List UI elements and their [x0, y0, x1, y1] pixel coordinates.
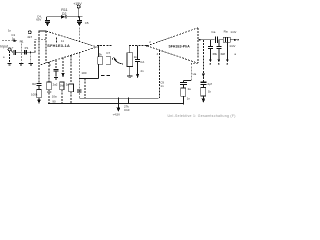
svg-text:Uni-Selektive 1: Gesamtschaltu: Uni-Selektive 1: Gesamtschaltung (F) — [168, 114, 236, 118]
wire node to P1 — [21, 51, 35, 53]
wire to inverting input — [35, 40, 46, 53]
wire IC2 output — [198, 39, 215, 41]
wire supply stub — [78, 8, 80, 17]
node IC2 input apex — [146, 40, 151, 47]
svg-text:10a: 10a — [52, 95, 57, 99]
capacitor C11 chain — [160, 80, 191, 103]
capacitor C8 — [135, 46, 144, 74]
svg-text:SFH1E3-1A: SFH1E3-1A — [47, 44, 70, 48]
svg-text:1mV: 1mV — [230, 30, 236, 34]
svg-text:Input: Input — [0, 45, 8, 49]
supply terminal +15V — [73, 2, 82, 8]
ground jack — [8, 51, 12, 65]
ground arrow C8 — [136, 74, 139, 79]
ground C2 — [54, 77, 58, 79]
wire rail link — [124, 98, 130, 112]
resistor R2 vertical — [30, 52, 32, 62]
svg-text:1µ: 1µ — [12, 36, 16, 40]
svg-text:Ua: Ua — [193, 72, 197, 76]
node rail dots — [48, 98, 129, 105]
wire to IC2 input — [129, 45, 147, 47]
wire down to rail — [84, 79, 86, 99]
ground arrow pin4 — [62, 58, 65, 78]
op-amp IC1 — [41, 31, 98, 65]
wire supply drop to IC1 — [78, 28, 80, 42]
svg-text:2a2: 2a2 — [53, 82, 58, 86]
capacitor C5 — [77, 17, 89, 27]
node junction — [30, 52, 31, 53]
svg-text:1k: 1k — [134, 55, 138, 59]
wire top corner stub — [39, 30, 46, 32]
resistor R5 below IC1 — [52, 55, 74, 103]
svg-text:2n: 2n — [141, 69, 145, 73]
capacitor C4 — [36, 15, 50, 27]
node supply rail junction — [78, 16, 80, 18]
svg-text:+: + — [12, 46, 14, 50]
op-amp IC2 — [147, 28, 198, 63]
trimmer P1 — [25, 46, 29, 55]
svg-text:C5: C5 — [85, 21, 89, 25]
wire input arrow — [2, 40, 17, 43]
svg-text:68k: 68k — [213, 52, 218, 56]
svg-text:R2: R2 — [32, 82, 36, 86]
svg-text:1k0: 1k0 — [47, 90, 52, 94]
svg-text:P1: P1 — [25, 46, 29, 50]
node rail junction — [183, 103, 185, 105]
svg-text:100: 100 — [81, 71, 86, 75]
ground dashes C7 — [101, 75, 110, 77]
svg-text:63V: 63V — [36, 18, 41, 22]
resistor R6 feedback — [98, 46, 103, 79]
ground main — [113, 98, 121, 116]
node IC1 output apex — [96, 46, 98, 48]
wire rail bottom — [48, 103, 183, 105]
resistor R7 — [127, 46, 137, 76]
svg-text:2a: 2a — [188, 87, 192, 91]
svg-text:1n: 1n — [187, 96, 191, 100]
svg-text:+4,5V: +4,5V — [113, 112, 121, 116]
svg-text:Ra: Ra — [224, 29, 228, 33]
resistor drop C — [226, 42, 229, 65]
capacitor C9 — [211, 30, 217, 43]
wire rail mid — [79, 97, 158, 99]
svg-text:C7: C7 — [106, 51, 110, 55]
wire IC2 pin drop — [157, 50, 160, 98]
node IC2 output — [199, 39, 201, 41]
wire output end — [229, 30, 239, 56]
resistor R9 — [223, 29, 230, 42]
svg-text:4k7: 4k7 — [27, 35, 32, 39]
svg-text:90: 90 — [52, 100, 56, 104]
svg-text:1k8: 1k8 — [60, 84, 65, 88]
node pin circle — [27, 31, 32, 39]
ground R7 — [127, 76, 132, 78]
resistor R3 chain left — [31, 31, 41, 104]
wire top rail — [47, 16, 83, 18]
wire bias drop — [77, 53, 98, 99]
svg-text:100k: 100k — [31, 93, 38, 97]
svg-text:1mV: 1mV — [229, 44, 235, 48]
svg-text:5k: 5k — [99, 53, 103, 57]
diode D2 — [61, 8, 68, 19]
input jack circle — [8, 46, 14, 51]
resistor R4 below IC1 — [47, 62, 52, 104]
node stub junction — [38, 30, 39, 31]
node output junction — [98, 45, 99, 46]
svg-text:1n: 1n — [160, 84, 164, 88]
svg-text:C10: C10 — [124, 108, 130, 112]
wire — [218, 39, 223, 41]
svg-text:5a: 5a — [66, 82, 70, 86]
wire C1 to node — [16, 51, 21, 53]
svg-text:4µ7: 4µ7 — [207, 82, 212, 86]
resistor R1 vertical — [20, 40, 24, 63]
wire IC2 lower stub — [183, 63, 198, 80]
capacitor C2 below IC1 — [54, 60, 59, 77]
wire IC1 output — [97, 45, 112, 47]
svg-text:CA: CA — [140, 60, 144, 64]
svg-text:D2: D2 — [62, 12, 66, 16]
svg-text:SFH1E3-PhA: SFH1E3-PhA — [169, 44, 191, 48]
ground R2 — [29, 63, 33, 65]
capacitor drop B — [213, 40, 226, 65]
svg-text:6k8: 6k8 — [221, 52, 226, 56]
wire jack to C1 — [11, 50, 13, 53]
capacitor C7 arcs — [106, 51, 111, 64]
trimmer arrow — [114, 58, 123, 64]
capacitor drop A — [208, 40, 213, 65]
node dot — [112, 58, 113, 59]
ground R1 — [19, 63, 23, 65]
svg-text:Ca: Ca — [211, 30, 215, 34]
capacitor C1 — [11, 33, 15, 55]
svg-text:R1: R1 — [20, 40, 24, 44]
svg-text:11: 11 — [61, 39, 64, 43]
capacitor C10 output chain — [200, 40, 212, 103]
